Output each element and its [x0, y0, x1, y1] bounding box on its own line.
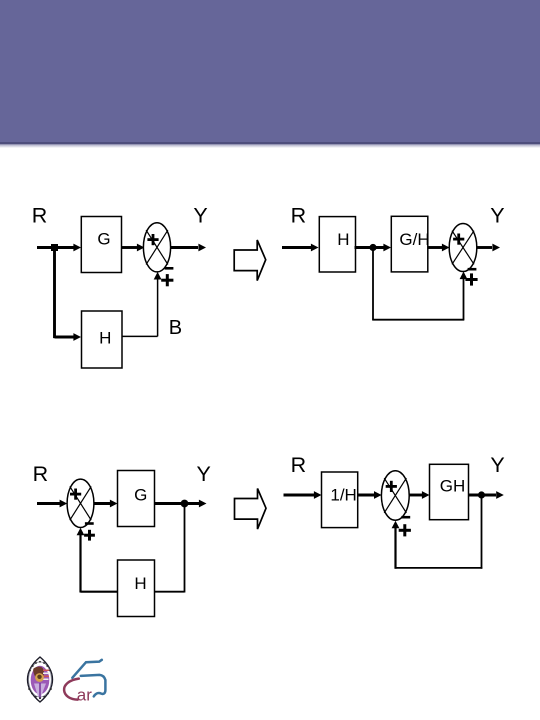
svg-text:H: H [337, 230, 349, 249]
svg-text:Y: Y [193, 204, 207, 228]
svg-text:GH: GH [440, 476, 466, 495]
svg-text:R: R [291, 204, 307, 228]
svg-text:1/H: 1/H [330, 486, 356, 505]
svg-text:B: B [169, 317, 182, 339]
svg-text:G: G [97, 229, 110, 248]
svg-text:Y: Y [197, 462, 211, 486]
svg-text:R: R [291, 453, 307, 477]
svg-text:Y: Y [490, 204, 504, 228]
svg-text:Y: Y [490, 453, 504, 477]
svg-text:ar: ar [77, 686, 92, 705]
svg-text:R: R [33, 462, 49, 486]
svg-text:H: H [134, 574, 146, 593]
svg-text:R: R [32, 204, 48, 228]
svg-text:G/H: G/H [399, 230, 429, 249]
svg-text:G: G [134, 486, 147, 505]
svg-text:H: H [99, 328, 111, 347]
